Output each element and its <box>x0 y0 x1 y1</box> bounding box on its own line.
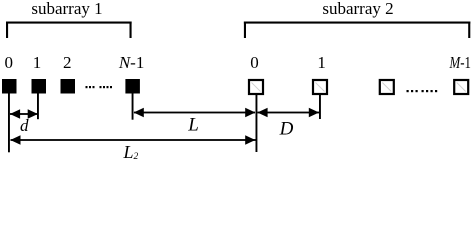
dimension arrow D <box>257 108 319 117</box>
index label M-1 <box>449 53 471 72</box>
element (open square, subarray 2, before M-1) <box>380 80 394 94</box>
svg-text:0: 0 <box>250 53 259 72</box>
label subarray 2 <box>322 0 393 18</box>
label subarray 1 <box>31 0 102 18</box>
svg-text:1: 1 <box>317 53 326 72</box>
element N-1 (filled square, subarray 1) <box>125 79 139 94</box>
svg-text:D: D <box>279 119 294 140</box>
svg-text:L: L <box>187 115 199 136</box>
index label N-1 <box>118 53 145 72</box>
element M-1 (open square, subarray 2) <box>454 80 468 94</box>
svg-text:M-1: M-1 <box>449 53 471 72</box>
element 2 (filled square, subarray 1) <box>61 79 76 94</box>
svg-text:subarray 1: subarray 1 <box>31 0 102 18</box>
stem below element N-1 <box>132 94 134 120</box>
svg-text:subarray 2: subarray 2 <box>322 0 393 18</box>
element 0 (filled square, subarray 1) <box>2 79 17 94</box>
index label 0 (subarray 2) <box>250 53 259 72</box>
svg-text:d: d <box>20 116 29 135</box>
ellipsis dots (subarray 2) <box>407 90 438 92</box>
dimension arrow d <box>10 109 38 118</box>
index label 0 (subarray 1) <box>4 53 13 72</box>
bracket subarray 1 <box>6 22 132 39</box>
stem below element 1 subarray 2 <box>319 94 321 119</box>
index label 2 (subarray 1) <box>63 53 72 72</box>
stem below element 0 subarray 1 <box>8 94 10 153</box>
dimension arrow L2 <box>10 135 255 144</box>
stem below element 0 subarray 2 <box>256 94 258 152</box>
label L2 <box>123 142 139 162</box>
bracket subarray 2 <box>244 22 470 39</box>
ellipsis dots (subarray 1) <box>86 86 113 88</box>
element 1 (open square, subarray 2) <box>313 80 327 94</box>
svg-text:1: 1 <box>33 53 42 72</box>
svg-text:0: 0 <box>4 53 13 72</box>
label L <box>187 115 199 136</box>
label d <box>20 116 29 135</box>
svg-text:N-1: N-1 <box>118 53 145 72</box>
element 1 (filled square, subarray 1) <box>32 79 47 94</box>
label D <box>279 119 294 140</box>
dimension arrow L <box>134 108 256 117</box>
stem below element 1 subarray 1 <box>37 94 39 120</box>
index label 1 (subarray 1) <box>33 53 42 72</box>
index label 1 (subarray 2) <box>317 53 326 72</box>
svg-text:2: 2 <box>63 53 72 72</box>
element 0 (open square, subarray 2) <box>249 80 263 94</box>
